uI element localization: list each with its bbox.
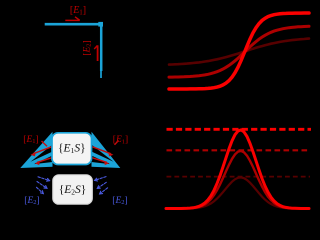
wire: cyan vertical axis line: [100, 26, 103, 71]
dashed level line dark (bottom-right plot): [167, 176, 311, 178]
svg-text:[E1]: [E1]: [23, 135, 38, 145]
gaussian curve dark: [166, 177, 309, 208]
blue association arrows (right of E2S, pointing into box): [95, 177, 108, 194]
svg-text:[E2]: [E2]: [24, 196, 39, 206]
gaussian curve bright: [166, 130, 309, 209]
wire: cyan horizontal axis line (top-left sketch): [45, 23, 100, 26]
sigmoid curve medium: [169, 26, 309, 77]
svg-text:[E1]: [E1]: [113, 135, 128, 145]
arrow: red upward harpoon beside [E2]: [97, 45, 99, 61]
arrow: red rightward harpoon under [E1]: [65, 19, 80, 21]
red out-arrows from box E1S (left): [31, 141, 52, 165]
cyan fan arrows into box E1S (left): [20, 132, 52, 168]
box E2S: [53, 175, 93, 204]
red out-arrows from box E1S (right): [93, 141, 119, 166]
sigmoid curve dark (top-right plot): [169, 39, 309, 65]
svg-text:[E2]: [E2]: [82, 40, 92, 55]
svg-text:[E1]: [E1]: [70, 5, 86, 16]
svg-text:[E2]: [E2]: [112, 196, 127, 206]
dashed level line medium: [167, 149, 311, 151]
gaussian curve medium: [166, 151, 309, 209]
box E1S: [52, 133, 92, 165]
sigmoid curve bright: [169, 13, 309, 89]
blue association arrows (left of E2S, pointing into box): [37, 177, 50, 194]
cyan fan arrows into box E1S (right): [91, 132, 120, 168]
node: cyan corner dot: [98, 22, 103, 27]
dashed level line bright: [167, 128, 312, 131]
